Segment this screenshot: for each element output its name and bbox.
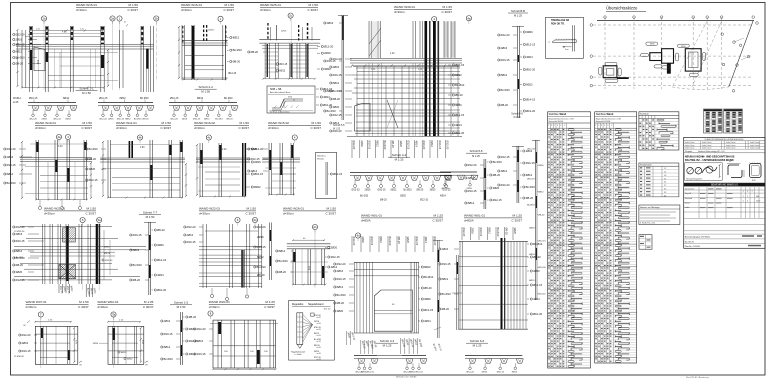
- svg-text:Positionsliste: Positionsliste: [640, 164, 653, 167]
- svg-text:Beispiel Biegeform: Beispiel Biegeform: [686, 177, 702, 180]
- wall detail W22-01: [184, 224, 262, 301]
- wall detail W0L-01 column B header: [464, 214, 522, 223]
- svg-text:16Ø12: 16Ø12: [208, 30, 215, 32]
- svg-text:Ø12-20: Ø12-20: [467, 372, 475, 374]
- svg-text:n. Statik: n. Statik: [294, 353, 301, 356]
- svg-text:Bü Ø10: Bü Ø10: [16, 56, 26, 60]
- svg-text:WAND W16-02: WAND W16-02: [194, 121, 215, 125]
- section label Schnitt 1-1: [76, 87, 98, 95]
- svg-text:2Ø16: 2Ø16: [108, 119, 114, 121]
- svg-text:8Ø12: 8Ø12: [233, 36, 240, 40]
- svg-text:Ø10-15: Ø10-15: [501, 58, 510, 62]
- svg-text:8Ø12: 8Ø12: [254, 185, 261, 189]
- left callouts W15-01: [13, 33, 41, 66]
- svg-text:12 Ø10-20: 12 Ø10-20: [14, 356, 25, 358]
- svg-text:a=15: a=15: [317, 347, 321, 349]
- svg-text:WAND W0L-01: WAND W0L-01: [464, 214, 485, 218]
- title header WAND W15-02: [268, 121, 321, 130]
- svg-text:6a: 6a: [253, 218, 257, 222]
- svg-text:M 1:50: M 1:50: [83, 121, 93, 125]
- svg-text:d=30cm: d=30cm: [194, 126, 205, 130]
- svg-text:M 1:25: M 1:25: [513, 117, 521, 119]
- svg-text:3Ø20: 3Ø20: [493, 186, 500, 190]
- svg-text:M 1:25: M 1:25: [473, 343, 482, 347]
- section detail Schnitt B-B: [498, 9, 536, 119]
- svg-text:1.20: 1.20: [390, 53, 395, 55]
- svg-text:Ø12-15: Ø12-15: [493, 198, 502, 202]
- svg-text:50 Stck. je Anschluss: 50 Stck. je Anschluss: [270, 110, 290, 113]
- svg-text:2Ø16: 2Ø16: [442, 247, 449, 251]
- svg-text:M 1:50: M 1:50: [162, 121, 172, 125]
- svg-text:Ø10-20: Ø10-20: [433, 237, 437, 246]
- svg-text:Ø8-20: Ø8-20: [189, 315, 197, 319]
- svg-text:Stahlliste Wand: Stahlliste Wand: [549, 113, 567, 116]
- svg-text:Ø12-20: Ø12-20: [526, 109, 535, 113]
- svg-text:d=30cm: d=30cm: [116, 126, 127, 130]
- wall elevation W20-01: [194, 320, 278, 370]
- svg-text:d=30cm: d=30cm: [268, 126, 279, 130]
- svg-text:M 1:50: M 1:50: [327, 207, 337, 211]
- steel schedule table 1: [548, 112, 591, 368]
- vertical strip detail Schnitt 7-7: [130, 222, 167, 295]
- boxed note SB anchor detail: [267, 86, 315, 113]
- svg-text:430: 430: [756, 196, 759, 198]
- svg-text:a=15: a=15: [317, 353, 321, 355]
- svg-text:Plan 4711-B2 / Bewehrung: Plan 4711-B2 / Bewehrung: [686, 376, 708, 379]
- svg-text:WAND W30-01: WAND W30-01: [394, 5, 415, 9]
- svg-text:C 30/37: C 30/37: [264, 305, 275, 309]
- svg-text:WAND W15-02: WAND W15-02: [268, 121, 289, 125]
- svg-text:Bü Ø10: Bü Ø10: [527, 205, 535, 207]
- svg-text:WAND W26-01: WAND W26-01: [283, 207, 304, 211]
- steel summary table 1: [704, 109, 723, 133]
- svg-text:Ø10-15: Ø10-15: [368, 141, 372, 150]
- svg-text:C 30/37: C 30/37: [160, 126, 171, 130]
- svg-text:3Ø20: 3Ø20: [157, 243, 164, 247]
- svg-text:Ø12-15: Ø12-15: [228, 73, 236, 75]
- svg-text:Bü Ø10: Bü Ø10: [224, 97, 233, 100]
- svg-text:3Ø20: 3Ø20: [424, 297, 431, 301]
- svg-text:Ø12-15: Ø12-15: [105, 260, 113, 262]
- svg-text:Ø14-15: Ø14-15: [438, 141, 442, 150]
- svg-text:Ø12-20: Ø12-20: [333, 57, 342, 61]
- svg-text:Index: Index: [685, 207, 690, 209]
- section label Schnitt 6-6: [466, 339, 488, 347]
- svg-text:4Ø14: 4Ø14: [251, 169, 258, 173]
- svg-text:Ø12-15: Ø12-15: [407, 141, 411, 150]
- wall detail W26-01: [276, 230, 340, 288]
- svg-text:M 1:25: M 1:25: [395, 157, 404, 161]
- svg-text:Index Datum: Index Datum: [685, 147, 695, 150]
- svg-text:3Ø20: 3Ø20: [399, 141, 403, 148]
- svg-text:Ø10-15: Ø10-15: [370, 237, 374, 246]
- svg-text:Ø8-20: Ø8-20: [337, 301, 345, 305]
- slab section under W30-01: [350, 173, 452, 202]
- slab cross-section strip 3: [169, 97, 238, 121]
- svg-text:Bü Ø10: Bü Ø10: [133, 263, 143, 267]
- svg-text:8Ø12: 8Ø12: [337, 285, 344, 289]
- svg-text:3Ø20: 3Ø20: [89, 167, 96, 171]
- small box detail row2: [316, 152, 343, 198]
- svg-text:Übersichtsskizze: Übersichtsskizze: [606, 6, 638, 11]
- svg-text:7a: 7a: [112, 313, 116, 317]
- svg-text:8Ø12: 8Ø12: [16, 249, 23, 253]
- svg-text:Index Datum: Index Datum: [750, 141, 760, 144]
- svg-text:Ø12-15: Ø12-15: [538, 241, 546, 243]
- svg-text:8Ø12: 8Ø12: [424, 265, 431, 269]
- svg-text:2.80: 2.80: [140, 147, 145, 149]
- svg-text:4d: 4d: [356, 234, 360, 238]
- svg-text:2cm: 2cm: [565, 49, 569, 51]
- svg-text:2Ø16: 2Ø16: [327, 21, 334, 25]
- svg-text:Ø8-20: Ø8-20: [501, 103, 509, 107]
- svg-text:Wände: Wände: [317, 159, 325, 161]
- svg-text:WAND W07-01: WAND W07-01: [26, 300, 47, 304]
- svg-text:Ø10-15: Ø10-15: [164, 332, 173, 336]
- svg-text:M 1:20: M 1:20: [324, 309, 331, 311]
- svg-text:M 1:25: M 1:25: [513, 214, 523, 218]
- svg-text:8Ø12: 8Ø12: [375, 141, 379, 148]
- svg-text:Ø8-20: Ø8-20: [279, 270, 287, 274]
- svg-text:d=30cm: d=30cm: [283, 212, 294, 216]
- svg-text:2Ø16: 2Ø16: [365, 189, 372, 192]
- svg-text:Betonstahl B500B: Betonstahl B500B: [596, 120, 611, 123]
- svg-text:4b: 4b: [138, 136, 142, 140]
- wall elevation W19-01: [4, 140, 92, 210]
- svg-text:Index Datum: Index Datum: [685, 141, 695, 144]
- svg-text:Ø8-20: Ø8-20: [104, 253, 111, 255]
- svg-text:5a: 5a: [98, 218, 102, 222]
- title block black band: [684, 183, 765, 187]
- svg-text:Bü Ø10: Bü Ø10: [89, 147, 99, 151]
- svg-text:Ø10-20: Ø10-20: [422, 141, 426, 150]
- svg-text:8Ø12: 8Ø12: [512, 372, 518, 374]
- svg-text:Ø10-15: Ø10-15: [333, 172, 342, 176]
- svg-text:4a: 4a: [467, 16, 471, 20]
- svg-text:Ø10-15: Ø10-15: [257, 245, 266, 249]
- svg-text:Ø12-20: Ø12-20: [352, 141, 356, 150]
- svg-text:3Ø20: 3Ø20: [526, 30, 533, 34]
- svg-text:Ø8-20: Ø8-20: [417, 189, 424, 192]
- svg-text:a=15: a=15: [317, 341, 321, 343]
- svg-text:Ø10-15: Ø10-15: [416, 372, 424, 374]
- svg-text:4Ø14: 4Ø14: [189, 352, 196, 356]
- svg-text:d=30cm: d=30cm: [97, 305, 108, 309]
- svg-text:ROH OK TR.: ROH OK TR.: [551, 23, 565, 25]
- svg-text:8Ø12: 8Ø12: [391, 189, 398, 192]
- svg-text:8Ø12: 8Ø12: [538, 191, 544, 193]
- svg-text:8 Bü Ø10: 8 Bü Ø10: [14, 257, 24, 259]
- svg-text:Ø10-15: Ø10-15: [22, 349, 31, 353]
- svg-text:Ø12-15: Ø12-15: [331, 255, 340, 259]
- svg-text:Ø12-15: Ø12-15: [455, 113, 464, 117]
- svg-text:8Ø12: 8Ø12: [379, 237, 383, 244]
- svg-text:PLANKOPF BEWEHRUNG UNTERGESCHO: PLANKOPF BEWEHRUNG UNTERGESCHOSS: [705, 138, 745, 141]
- svg-text:12 Ø12-15: 12 Ø12-15: [14, 231, 25, 233]
- svg-text:Ø8-20: Ø8-20: [505, 228, 509, 236]
- svg-text:M 1:50: M 1:50: [129, 3, 139, 7]
- svg-text:d=30cm: d=30cm: [44, 212, 55, 216]
- svg-text:Bü Ø10: Bü Ø10: [140, 97, 149, 100]
- svg-text:Ø12-15: Ø12-15: [89, 178, 98, 182]
- svg-text:6Ø12: 6Ø12: [529, 280, 535, 282]
- wall elevation W15-02: [248, 143, 300, 196]
- wall elevation W16-01: [123, 22, 242, 93]
- svg-text:Ø12-20: Ø12-20: [197, 327, 206, 331]
- intermediate strip between W0L details: [432, 240, 443, 352]
- svg-text:Ø8-20: Ø8-20: [442, 307, 450, 311]
- svg-text:2Ø16: 2Ø16: [467, 188, 473, 190]
- svg-text:Index Datum: Index Datum: [702, 141, 712, 144]
- svg-text:4Ø14: 4Ø14: [424, 237, 428, 244]
- svg-text:d=30cm: d=30cm: [26, 305, 37, 309]
- title header WAND W25-01: [260, 3, 318, 12]
- svg-text:Index Datum: Index Datum: [726, 147, 736, 150]
- svg-text:Index Datum: Index Datum: [726, 144, 736, 147]
- svg-text:2b: 2b: [155, 17, 159, 21]
- title header WAND W16-02: [194, 121, 249, 130]
- svg-text:M 1:25: M 1:25: [434, 214, 444, 218]
- svg-text:Ø12-15: Ø12-15: [533, 283, 542, 287]
- title header WAND W20-01: [209, 300, 275, 309]
- svg-text:M 1:50: M 1:50: [240, 121, 250, 125]
- svg-text:Ø8-20: Ø8-20: [333, 97, 341, 101]
- svg-text:Bü Ø10: Bü Ø10: [388, 237, 392, 246]
- svg-text:8Ø12: 8Ø12: [63, 97, 70, 100]
- svg-text:4Ø14: 4Ø14: [424, 319, 431, 323]
- dense wall detail W21-01: [13, 224, 146, 297]
- svg-text:Bü Ø10: Bü Ø10: [526, 185, 536, 189]
- nailing spacing box Regelabstand: [289, 301, 335, 362]
- svg-text:8Ø12: 8Ø12: [442, 277, 449, 281]
- svg-text:Bü Ø10: Bü Ø10: [215, 119, 223, 121]
- svg-text:a=15: a=15: [317, 317, 321, 319]
- svg-text:d=30cm: d=30cm: [260, 8, 271, 12]
- svg-text:C 30/37: C 30/37: [511, 219, 522, 223]
- svg-text:Ø8-20: Ø8-20: [133, 278, 141, 282]
- svg-text:WAND W11-01: WAND W11-01: [116, 121, 137, 125]
- svg-text:Ø10-15: Ø10-15: [170, 97, 179, 100]
- svg-text:Index Datum: Index Datum: [750, 144, 760, 147]
- svg-text:Index Datum: Index Datum: [702, 144, 712, 147]
- svg-text:Ø12-20: Ø12-20: [501, 33, 510, 37]
- svg-text:3.20: 3.20: [58, 146, 63, 148]
- svg-text:2Ø16: 2Ø16: [281, 30, 287, 32]
- svg-text:Bü Ø10: Bü Ø10: [7, 181, 17, 185]
- svg-text:2Ø16: 2Ø16: [501, 46, 508, 50]
- bottom rotated labels of W30-01: [352, 140, 450, 158]
- title block stirrup sketch right: [750, 163, 762, 183]
- overview plan grid bubbles: [590, 16, 758, 92]
- svg-text:a=15: a=15: [317, 329, 321, 331]
- svg-text:Ø8-20: Ø8-20: [455, 93, 463, 97]
- svg-text:Ø10-20: Ø10-20: [333, 129, 342, 133]
- section label Schnitt 2-2: [195, 85, 217, 93]
- svg-text:Ø10-15: Ø10-15: [99, 97, 108, 100]
- svg-text:NEUBAU WOHN- UND GESCHÄFTSHAUS: NEUBAU WOHN- UND GESCHÄFTSHAUS: [685, 155, 735, 158]
- right strip detail row2: [498, 146, 536, 203]
- svg-text:M 1:50: M 1:50: [146, 215, 155, 219]
- svg-text:d=30cm: d=30cm: [394, 10, 405, 14]
- svg-text:Schnitt 9-9: Schnitt 9-9: [511, 113, 523, 116]
- svg-text:d=30cm: d=30cm: [35, 126, 46, 130]
- svg-text:W25: W25: [650, 44, 655, 46]
- title header WAND W19-01: [35, 121, 92, 130]
- svg-text:Ø8-20: Ø8-20: [16, 62, 24, 66]
- svg-text:C 30/37: C 30/37: [325, 212, 336, 216]
- wall elevation W02-01 grid: [93, 312, 149, 368]
- svg-text:Stahlliste Wand: Stahlliste Wand: [596, 113, 614, 116]
- svg-text:Ø10-15: Ø10-15: [455, 63, 464, 67]
- svg-text:Ø14-15: Ø14-15: [526, 98, 535, 102]
- svg-text:Ø10-20: Ø10-20: [501, 183, 510, 187]
- svg-text:Ø8-20: Ø8-20: [526, 196, 534, 200]
- steel schedule table 3 upper: [639, 112, 679, 150]
- svg-text:2a: 2a: [42, 17, 46, 21]
- svg-text:Schnitt 7-7: Schnitt 7-7: [143, 211, 158, 215]
- svg-text:8Ø12: 8Ø12: [455, 73, 462, 77]
- overview plan wall outlines: [603, 49, 701, 79]
- svg-text:M 1:25: M 1:25: [144, 300, 154, 304]
- svg-text:d=30cm: d=30cm: [209, 305, 220, 309]
- section markers row 4: [38, 311, 213, 320]
- svg-text:Ø10-15: Ø10-15: [367, 372, 375, 374]
- svg-text:C 30/37: C 30/37: [85, 212, 96, 216]
- svg-text:2a: 2a: [111, 17, 115, 21]
- svg-text:a=15: a=15: [13, 101, 19, 104]
- svg-text:4Ø14: 4Ø14: [440, 195, 447, 198]
- svg-text:C 30/37: C 30/37: [143, 305, 154, 309]
- svg-text:WAND W20-01: WAND W20-01: [209, 300, 230, 304]
- svg-text:Index Datum: Index Datum: [750, 147, 760, 150]
- svg-text:Maßstab 1:50 / DIN A0: Maßstab 1:50 / DIN A0: [396, 376, 417, 379]
- svg-text:Ø12-15: Ø12-15: [157, 258, 166, 262]
- wall elevation W15-01: [16, 21, 123, 92]
- svg-text:3Ø20: 3Ø20: [529, 228, 535, 230]
- svg-text:2Ø16: 2Ø16: [197, 339, 204, 343]
- svg-text:Ø10-15: Ø10-15: [187, 240, 196, 244]
- svg-text:Bü Ø10: Bü Ø10: [333, 89, 343, 93]
- svg-text:C 30/37: C 30/37: [127, 8, 138, 12]
- svg-text:C 30/37: C 30/37: [78, 305, 89, 309]
- svg-text:2Ø16: 2Ø16: [7, 155, 14, 159]
- narrow wall edge section left of schedule table: [527, 140, 546, 300]
- svg-text:2Ø16: 2Ø16: [16, 38, 23, 42]
- vertical strip Schnitt 1-5: [161, 312, 198, 365]
- svg-text:C 30/37: C 30/37: [310, 126, 321, 130]
- svg-text:a=15: a=15: [317, 323, 321, 325]
- title header WAND W22-01: [199, 207, 256, 216]
- rotated labels above W0L-01 B: [462, 227, 517, 240]
- svg-text:Ø10-15: Ø10-15: [526, 161, 535, 165]
- svg-text:8Ø12: 8Ø12: [16, 50, 23, 54]
- svg-text:8Ø12: 8Ø12: [488, 228, 492, 235]
- svg-text:2Ø16: 2Ø16: [360, 141, 364, 148]
- svg-text:6Ø12: 6Ø12: [430, 141, 434, 148]
- svg-text:Ø12-20: Ø12-20: [462, 228, 466, 237]
- title block bold project title: [685, 155, 735, 162]
- title block bottom rows: [684, 225, 765, 249]
- svg-text:Ø12-20: Ø12-20: [352, 237, 356, 246]
- svg-text:6Ø12: 6Ø12: [526, 83, 533, 87]
- svg-text:M 1:25: M 1:25: [443, 5, 453, 9]
- svg-text:C 30/37: C 30/37: [245, 212, 256, 216]
- svg-text:TL: TL: [549, 41, 551, 43]
- svg-text:C 30/37: C 30/37: [441, 10, 452, 14]
- svg-text:M 1:25: M 1:25: [514, 14, 522, 18]
- svg-text:Plan-Nr. 4711-B2: Plan-Nr. 4711-B2: [685, 246, 701, 248]
- svg-text:Ø12-20: Ø12-20: [16, 225, 25, 229]
- svg-text:Ø8-20: Ø8-20: [538, 214, 545, 216]
- wall detail W0L-01 column A header: [361, 214, 443, 223]
- svg-text:WAND W15-01: WAND W15-01: [76, 3, 97, 7]
- svg-text:Geprüft: Geprüft: [685, 192, 692, 195]
- svg-text:2Ø16: 2Ø16: [164, 319, 171, 323]
- svg-text:Ø10-15: Ø10-15: [280, 64, 288, 66]
- svg-text:a=15: a=15: [317, 335, 321, 337]
- svg-text:Ø12-20: Ø12-20: [337, 262, 346, 266]
- svg-text:Bü Ø10: Bü Ø10: [493, 160, 503, 164]
- svg-text:8Ø12: 8Ø12: [197, 97, 204, 100]
- svg-text:d=85/A: d=85/A: [361, 219, 371, 223]
- svg-text:Ø12-20: Ø12-20: [7, 147, 16, 151]
- wall elevation W07-01 grid: [14, 312, 82, 368]
- title header WAND W11-01: [116, 121, 171, 130]
- svg-text:3Ø20: 3Ø20: [533, 269, 540, 273]
- svg-text:M 1:50: M 1:50: [201, 89, 210, 93]
- svg-text:4Ø14: 4Ø14: [529, 254, 535, 256]
- title header WAND W15-01: [76, 3, 138, 12]
- svg-text:Regelabst.: Regelabst.: [292, 303, 304, 306]
- svg-text:Gezeichnet: Gezeichnet: [685, 187, 695, 190]
- svg-text:Bü Ø10: Bü Ø10: [442, 292, 452, 296]
- svg-text:2Ø16: 2Ø16: [361, 237, 365, 244]
- svg-text:Stahlliste: Stahlliste: [640, 112, 650, 115]
- svg-text:8Ø12: 8Ø12: [280, 71, 286, 73]
- svg-text:Ø12-20: Ø12-20: [352, 189, 361, 192]
- svg-text:Schnitt 1-1: Schnitt 1-1: [79, 87, 94, 91]
- title header WAND W21-01: [44, 207, 96, 216]
- svg-text:d=85/A: d=85/A: [464, 219, 474, 223]
- section label Schnitt 3-3: [376, 339, 398, 347]
- title header WAND W26-01: [283, 207, 336, 216]
- svg-text:8Ø12: 8Ø12: [121, 352, 127, 354]
- svg-text:8Ø12: 8Ø12: [333, 81, 340, 85]
- svg-text:4Ø14: 4Ø14: [455, 123, 462, 127]
- svg-text:Schnitt 6-6: Schnitt 6-6: [470, 339, 485, 343]
- svg-text:Ø8-20: Ø8-20: [16, 263, 24, 267]
- svg-text:WAND W02-01: WAND W02-01: [97, 300, 118, 304]
- wall detail W0L-01 column B: [439, 238, 543, 330]
- svg-text:M 1:50: M 1:50: [82, 91, 91, 95]
- svg-text:Ø12-20: Ø12-20: [22, 333, 31, 337]
- svg-text:2Ø16: 2Ø16: [324, 51, 331, 55]
- svg-text:Ø10-15: Ø10-15: [497, 372, 505, 374]
- svg-text:3Ø20: 3Ø20: [331, 246, 338, 250]
- svg-text:Ø12-20: Ø12-20: [257, 225, 266, 229]
- svg-text:8Ø12: 8Ø12: [501, 73, 508, 77]
- svg-text:d=30cm: d=30cm: [76, 8, 87, 12]
- svg-text:Ø8-20: Ø8-20: [227, 119, 234, 121]
- svg-text:4Ø14: 4Ø14: [526, 55, 533, 59]
- svg-text:M 1:50: M 1:50: [79, 300, 89, 304]
- svg-text:B2-UG-W: B2-UG-W: [685, 241, 694, 243]
- svg-text:Anschlussdetail Bew.: Anschlussdetail Bew.: [270, 91, 291, 94]
- svg-text:Ø10-15: Ø10-15: [16, 239, 25, 243]
- svg-text:Ø10-20: Ø10-20: [157, 288, 166, 292]
- svg-text:WAND W16-01: WAND W16-01: [181, 3, 202, 7]
- svg-text:3Ø20: 3Ø20: [189, 327, 196, 331]
